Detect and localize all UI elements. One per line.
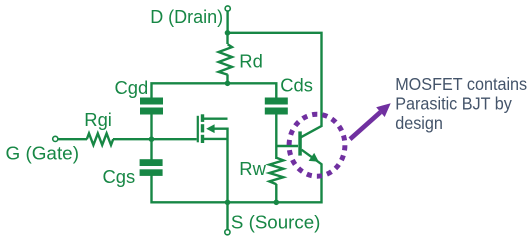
svg-text:Rw: Rw <box>239 158 266 179</box>
svg-text:D (Drain): D (Drain) <box>150 6 223 27</box>
svg-text:design: design <box>395 113 443 133</box>
svg-text:Parasitic BJT by: Parasitic BJT by <box>395 94 512 114</box>
svg-text:G (Gate): G (Gate) <box>6 142 80 163</box>
svg-text:S (Source): S (Source) <box>231 211 321 232</box>
svg-text:Cgd: Cgd <box>115 77 149 98</box>
svg-text:Cgs: Cgs <box>103 166 136 187</box>
svg-text:Rd: Rd <box>239 50 263 71</box>
svg-text:Rgi: Rgi <box>84 109 112 130</box>
svg-text:MOSFET contains: MOSFET contains <box>395 74 527 94</box>
svg-text:Cds: Cds <box>280 75 313 96</box>
